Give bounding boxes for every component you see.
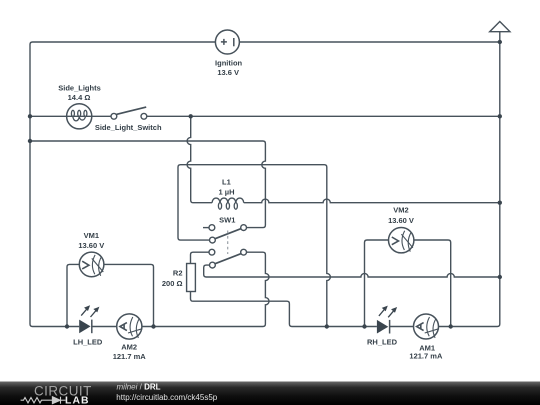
switch Side_Light_Switch: [111, 107, 147, 119]
svg-text:13.6 V: 13.6 V: [217, 68, 239, 77]
node VM2 right / right LED row: [449, 324, 453, 328]
svg-text:milnei / DRL: milnei / DRL: [117, 383, 161, 392]
wire VM2 left lead: [365, 240, 389, 327]
svg-text:121.7 mA: 121.7 mA: [409, 352, 443, 361]
svg-text:RH_LED: RH_LED: [367, 338, 398, 347]
ammeter AM1: [414, 314, 440, 339]
node lamp row / left rail: [28, 114, 32, 118]
wire SW1 lower common to node at right rail: [204, 265, 500, 277]
ammeter AM2: [117, 314, 143, 339]
wire VM1 left lead: [67, 264, 79, 326]
switch SW1 pole 2: [209, 249, 247, 268]
node top rail / right rail: [498, 40, 502, 44]
node lamp row / right rail: [498, 114, 502, 118]
wire junction lamp row to L1 left: [187, 116, 212, 202]
svg-text:Side_Light_Switch: Side_Light_Switch: [95, 123, 162, 132]
wire node B: SW1 upper common loop: [178, 165, 330, 327]
node VM1 right / LED row: [151, 324, 155, 328]
SW1 mechanical link (dashed): [227, 231, 229, 255]
lamp Side_Lights: [67, 104, 92, 129]
inductor L1: [212, 198, 244, 209]
wire R2 bottom to right LED row: [191, 292, 377, 327]
svg-text:14.4 Ω: 14.4 Ω: [68, 93, 91, 102]
resistor R2 body: [187, 264, 196, 292]
svg-text:http://circuitlab.com/ck45s5p: http://circuitlab.com/ck45s5p: [116, 393, 217, 402]
node common row / right rail: [498, 275, 502, 279]
wire right rail down to AM1: [439, 42, 500, 327]
LED LH_LED: [79, 306, 98, 333]
wire VM2 right lead: [414, 240, 451, 327]
wire RH LED bar to AM1: [390, 326, 414, 328]
wire left LED row AM2 to SW1 lower right throw: [142, 252, 269, 326]
wire LH LED bar to AM2: [92, 326, 117, 328]
node VM2 left / right LED row: [362, 324, 366, 328]
svg-text:LH_LED: LH_LED: [73, 337, 103, 346]
node VM1 left / LED row: [65, 324, 69, 328]
svg-text:200 Ω: 200 Ω: [162, 279, 183, 288]
node lamp row / L1 branch: [189, 114, 193, 118]
wire L1 right lead to right rail: [244, 199, 500, 203]
svg-text:1 µH: 1 µH: [219, 188, 235, 197]
svg-text:SW1: SW1: [219, 216, 235, 225]
battery V1 Ignition: [215, 30, 239, 54]
wire top rail right of battery: [239, 41, 499, 43]
node L1 row / right rail: [498, 201, 502, 205]
voltmeter VM1: [79, 252, 104, 277]
LED RH_LED: [377, 307, 396, 334]
wire switch to right rail: [147, 115, 500, 117]
svg-text:VM1: VM1: [84, 231, 99, 240]
node y141 / left rail: [28, 139, 32, 143]
logo resistor squiggle + diode: [21, 397, 66, 404]
voltmeter VM2: [389, 228, 414, 253]
wire y141 to SW1 upper right throw: [30, 141, 265, 228]
wire top rail + left border + left LED row: [30, 42, 215, 327]
wire SW1 lower left throw to R2 top: [191, 252, 210, 263]
node B vertical / right LED row: [325, 324, 329, 328]
svg-text:L1: L1: [222, 177, 231, 186]
svg-text:LAB: LAB: [65, 396, 90, 405]
power flag triangle top right: [490, 22, 510, 43]
svg-text:Ignition: Ignition: [215, 58, 242, 67]
svg-text:VM2: VM2: [393, 206, 408, 215]
svg-text:R2: R2: [173, 269, 183, 278]
wire lamp row: [30, 115, 111, 117]
svg-text:13.60 V: 13.60 V: [78, 241, 104, 250]
svg-text:13.60 V: 13.60 V: [388, 216, 414, 225]
svg-text:AM2: AM2: [121, 342, 137, 351]
svg-text:121.7 mA: 121.7 mA: [113, 352, 147, 361]
switch SW1 pole 1: [209, 225, 247, 243]
svg-text:Side_Lights: Side_Lights: [58, 84, 101, 93]
wire SW1 upper left stub: [203, 227, 209, 229]
wire VM1 right lead: [104, 264, 154, 326]
